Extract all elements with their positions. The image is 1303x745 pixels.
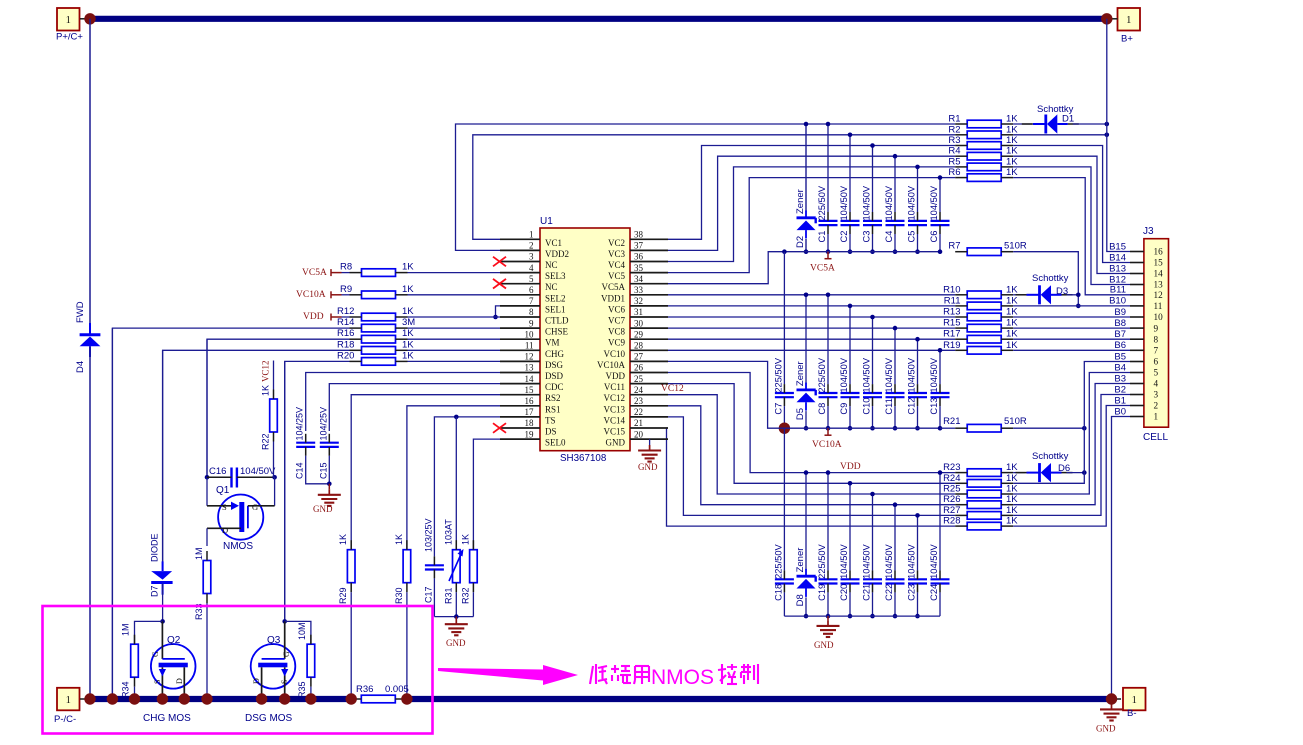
resistor R24 1K — [943, 473, 1018, 487]
pin 15 U1 RS2 — [500, 385, 561, 403]
zener D2 — [795, 189, 816, 248]
net label VC5A pin4 — [302, 268, 342, 278]
capacitor C16 104/50V — [207, 466, 276, 488]
wire CHG down to D7 — [162, 350, 164, 562]
svg-text:B15: B15 — [1109, 241, 1126, 252]
svg-text:DIODE: DIODE — [150, 533, 160, 562]
pin 5 J3 B4 — [1114, 362, 1158, 377]
wire C1 bottom — [827, 234, 829, 252]
junction R34 bus — [129, 693, 140, 704]
wire B0 B- rail — [1112, 417, 1131, 700]
svg-text:R26: R26 — [943, 494, 960, 505]
wire pin35 to R6 row — [668, 178, 940, 273]
svg-text:1K: 1K — [1006, 135, 1018, 146]
svg-text:1K: 1K — [1006, 329, 1018, 340]
svg-text:1K: 1K — [1006, 494, 1018, 505]
capacitor C18 225/50V — [773, 543, 794, 600]
resistor R25 1K — [943, 484, 1018, 498]
resistor R7 510R — [948, 241, 1027, 256]
connector J3 CELL — [1143, 226, 1169, 443]
wire C20 top — [849, 483, 851, 570]
wire D1 to B+ rail — [1073, 123, 1107, 125]
svg-text:R8: R8 — [340, 262, 352, 273]
wire R6 row to resistor — [940, 177, 955, 179]
junction D8 GND bus — [804, 614, 809, 619]
svg-text:VC7: VC7 — [608, 316, 626, 326]
wire pin23 to R26 row — [668, 406, 895, 505]
svg-text:C21: C21 — [862, 584, 872, 601]
wire pin16 to R30 — [407, 406, 500, 550]
svg-text:10: 10 — [525, 329, 535, 339]
pin 9 J3 B8 — [1114, 318, 1158, 333]
svg-text:NMOS: NMOS — [651, 666, 714, 689]
svg-text:20: 20 — [634, 429, 644, 439]
wire R8 to pin4 — [408, 272, 501, 274]
pin 12 J3 B11 — [1110, 285, 1163, 300]
svg-text:VC10A: VC10A — [812, 440, 842, 450]
svg-text:1K: 1K — [1006, 167, 1018, 178]
junction C3 top row — [870, 143, 875, 148]
wire pin31 row R13 — [668, 316, 955, 318]
svg-text:4: 4 — [1154, 379, 1159, 389]
wire C19 top — [827, 473, 829, 571]
wire VDD row — [806, 472, 955, 474]
svg-text:1: 1 — [66, 15, 71, 26]
svg-text:NC: NC — [545, 260, 558, 270]
wire R34 top link — [135, 621, 163, 643]
wire C2 top — [849, 135, 851, 212]
resistor R27 1K — [943, 505, 1018, 519]
wire VC5A to R8 — [342, 272, 350, 274]
junction R30 bus — [401, 693, 412, 704]
svg-text:VDD: VDD — [303, 312, 324, 322]
svg-text:S: S — [153, 680, 162, 684]
svg-text:1K: 1K — [1006, 156, 1018, 167]
wire C12 top — [917, 339, 919, 384]
wire R6 out to B11 — [1013, 178, 1130, 295]
wire R1 out to D1 — [1013, 123, 1032, 125]
svg-text:1K: 1K — [402, 328, 414, 339]
svg-text:R23: R23 — [943, 462, 960, 473]
pin 15 J3 B14 — [1109, 252, 1163, 267]
junction C19 GND bus — [826, 614, 831, 619]
junction C22 top row — [893, 502, 898, 507]
pin 10 U1 VM — [500, 329, 560, 347]
wire C16 left to S — [206, 477, 208, 506]
junction C1 VC5A bus — [826, 249, 831, 254]
wire R13 out to B9 — [1013, 316, 1130, 318]
svg-text:1K: 1K — [402, 284, 414, 295]
wire pin37 to R4 row — [668, 156, 895, 250]
ground C14 C15 — [313, 484, 341, 514]
svg-text:C5: C5 — [907, 231, 917, 243]
wire R22 top — [273, 361, 275, 390]
ground pin 20 — [638, 439, 661, 472]
wire C13 bottom — [939, 406, 941, 428]
svg-text:DSG MOS: DSG MOS — [245, 713, 293, 724]
no-connect X pin 5 — [493, 279, 506, 289]
svg-text:14: 14 — [525, 374, 535, 384]
svg-text:38: 38 — [634, 230, 644, 240]
capacitor C2 104/50V — [839, 185, 860, 242]
wire C5 bottom — [917, 234, 919, 252]
svg-text:104/50V: 104/50V — [240, 466, 276, 477]
wire C3 top — [872, 146, 874, 213]
capacitor C14 104/25V — [295, 407, 316, 479]
wire bottom bus right — [407, 696, 1112, 702]
svg-text:R29: R29 — [338, 587, 348, 604]
svg-text:1K: 1K — [338, 534, 348, 545]
svg-text:S: S — [280, 680, 289, 684]
wire D8 top — [805, 473, 807, 570]
junction C21 top row — [870, 492, 875, 497]
svg-text:15: 15 — [1154, 258, 1164, 268]
capacitor C9 104/50V — [839, 357, 860, 414]
svg-text:R4: R4 — [948, 146, 960, 157]
svg-text:25: 25 — [634, 374, 644, 384]
junction C1 top row — [826, 122, 831, 127]
svg-text:SEL1: SEL1 — [545, 304, 566, 314]
svg-text:Q3: Q3 — [267, 635, 281, 646]
wire C22 top — [894, 505, 896, 571]
capacitor C22 104/50V — [884, 543, 905, 600]
capacitor C17 103/25V — [423, 518, 444, 603]
svg-text:VC6: VC6 — [608, 304, 626, 314]
svg-text:SEL0: SEL0 — [545, 438, 566, 448]
junction B- bus — [1106, 693, 1117, 704]
svg-text:Schottky: Schottky — [1032, 451, 1069, 462]
svg-text:GND: GND — [313, 504, 333, 514]
svg-text:1: 1 — [1154, 412, 1159, 422]
svg-text:R34: R34 — [121, 681, 131, 698]
wire R4 out to B13 — [1013, 156, 1130, 273]
wire pin17 to C17 — [434, 417, 500, 557]
svg-text:1K: 1K — [1006, 473, 1018, 484]
junction D2 VC5A bus — [804, 249, 809, 254]
wire R20 row left — [285, 361, 350, 621]
pin 14 U1 CDC — [500, 374, 564, 392]
svg-text:104/50V: 104/50V — [929, 357, 939, 392]
wire C18 top to VC10A — [783, 428, 785, 570]
resistor R5 1K — [948, 156, 1018, 170]
svg-text:VC12: VC12 — [661, 384, 684, 394]
svg-text:DSD: DSD — [545, 371, 564, 381]
svg-text:24: 24 — [634, 385, 644, 395]
net label VC10A pin6 — [296, 290, 342, 300]
no-connect X pin 18 — [493, 423, 506, 433]
resistor R20 1K — [337, 350, 414, 365]
svg-text:104/50V: 104/50V — [862, 185, 872, 220]
wire D7 to gate node — [162, 584, 164, 622]
resistor R23 1K — [943, 462, 1018, 476]
svg-text:J3: J3 — [1143, 226, 1154, 237]
wire R14 row left — [112, 328, 349, 699]
svg-text:1K: 1K — [1006, 340, 1018, 351]
wire C6 bottom — [939, 234, 941, 252]
annotation magenta box — [43, 606, 433, 734]
svg-text:1K: 1K — [1006, 284, 1018, 295]
wire C19 bottom — [827, 592, 829, 616]
junction Q3 D bus — [256, 693, 267, 704]
junction C16 right — [272, 475, 277, 480]
wire C8 bottom — [827, 406, 829, 428]
resistor R12 1K — [337, 306, 414, 321]
junction P+ rail bus — [84, 693, 95, 704]
wire R21 out to B5 rail — [1013, 427, 1084, 429]
svg-text:GND: GND — [606, 438, 626, 448]
svg-text:B10: B10 — [1109, 296, 1126, 307]
resistor R30 1K — [394, 534, 411, 604]
svg-text:36: 36 — [634, 252, 644, 262]
junction C8 VC10A bus — [826, 426, 831, 431]
svg-text:GND: GND — [446, 638, 466, 648]
pin 2 J3 B1 — [1114, 395, 1158, 410]
svg-text:R21: R21 — [943, 416, 960, 427]
wire pin15 to R29 — [351, 395, 500, 551]
svg-text:1: 1 — [1132, 695, 1137, 706]
wire C11 top — [894, 328, 896, 384]
svg-text:VM: VM — [545, 338, 560, 348]
svg-text:P-/C-: P-/C- — [54, 714, 76, 725]
svg-text:1K: 1K — [1006, 124, 1018, 135]
pin 37 U1 VC3 — [608, 241, 668, 259]
svg-text:C15: C15 — [318, 462, 328, 479]
pin 13 J3 B12 — [1109, 274, 1163, 289]
capacitor C11 104/50V — [884, 357, 905, 414]
wire C23 bottom — [917, 592, 919, 616]
wire C9 top — [849, 306, 851, 384]
pin 24 U1 VC12 — [603, 385, 668, 403]
pin 35 U1 VC5 — [608, 263, 668, 281]
junction C24 top row — [938, 470, 943, 475]
wire C18 bottom — [783, 592, 785, 616]
wire C4 bottom — [894, 234, 896, 252]
capacitor C15 104/25V — [318, 407, 339, 479]
svg-text:D4: D4 — [75, 361, 86, 373]
resistor R10 1K — [943, 284, 1018, 298]
pin 18 U1 DS — [500, 418, 557, 436]
pin 32 U1 VC6 — [608, 296, 668, 314]
wire R22 bottom to C16 — [274, 442, 275, 478]
svg-text:1K: 1K — [402, 339, 414, 350]
svg-text:C9: C9 — [839, 403, 849, 415]
junction R33 bus — [201, 693, 212, 704]
svg-text:DSG: DSG — [545, 360, 564, 370]
svg-text:B2: B2 — [1114, 384, 1126, 395]
svg-text:103AT: 103AT — [443, 519, 453, 545]
wire R31 branch — [455, 417, 457, 550]
wire R4 row to resistor — [895, 155, 955, 157]
svg-text:104/50V: 104/50V — [839, 357, 849, 392]
svg-text:B5: B5 — [1114, 351, 1126, 362]
svg-text:CHG: CHG — [545, 349, 565, 359]
wire pin19 to R32 — [473, 439, 500, 550]
pin 3 J3 B2 — [1114, 384, 1158, 399]
svg-text:1K: 1K — [1006, 484, 1018, 495]
svg-text:GND: GND — [814, 640, 834, 650]
svg-text:DS: DS — [545, 427, 557, 437]
junction D5 VC10A bus — [804, 426, 809, 431]
junction C13 R21 tap — [938, 426, 943, 431]
svg-text:1K: 1K — [1006, 295, 1018, 306]
annotation text low-side NMOS control — [590, 664, 758, 689]
svg-text:510R: 510R — [1004, 416, 1027, 427]
svg-text:C16: C16 — [209, 466, 226, 477]
resistor R21 510R — [943, 416, 1027, 432]
wire R5 row to resistor — [918, 166, 956, 168]
wire D8 bottom — [805, 597, 807, 616]
svg-text:VC5A: VC5A — [302, 268, 327, 278]
wire C10 top — [872, 317, 874, 384]
junction C5 top row — [915, 165, 920, 170]
junction Q2 D bus — [179, 693, 190, 704]
resistor R13 1K — [943, 307, 1018, 321]
wire C6 top — [939, 178, 941, 212]
svg-text:26: 26 — [634, 363, 644, 373]
svg-text:B4: B4 — [1114, 362, 1126, 373]
svg-text:2: 2 — [1154, 401, 1159, 411]
wire C1 top — [827, 124, 829, 212]
resistor R11 1K — [944, 295, 1019, 309]
svg-text:103/25V: 103/25V — [423, 518, 433, 552]
svg-text:B7: B7 — [1114, 329, 1126, 340]
ground C17 R31 R32 — [445, 617, 468, 648]
resistor R33 1M — [194, 547, 211, 620]
pin 30 U1 VC8 — [608, 318, 668, 336]
capacitor C21 104/50V — [862, 543, 883, 600]
pin 29 U1 VC9 — [608, 329, 668, 347]
capacitor C19 225/50V — [817, 543, 838, 600]
svg-text:21: 21 — [634, 418, 643, 428]
svg-text:R25: R25 — [943, 484, 960, 495]
junction D5 R10 row — [804, 293, 809, 298]
wire R11 out to B10 — [1013, 305, 1130, 307]
resistor R17 1K — [943, 329, 1018, 343]
svg-text:VC5A: VC5A — [810, 264, 835, 274]
svg-text:C18: C18 — [773, 584, 783, 601]
svg-text:6: 6 — [1154, 357, 1159, 367]
svg-text:8: 8 — [529, 307, 534, 317]
no-connect X pin 3 — [493, 257, 506, 267]
svg-text:RS1: RS1 — [545, 404, 561, 414]
svg-text:D: D — [222, 525, 228, 535]
wire D6 to B5 rail — [1067, 472, 1085, 474]
svg-text:VC14: VC14 — [603, 415, 625, 425]
pin 1 J3 B0 — [1114, 406, 1158, 421]
pin 1 U1 VC1 — [500, 230, 562, 248]
wire pin30 row R15 — [668, 327, 955, 329]
svg-text:R5: R5 — [948, 156, 960, 167]
wire pin22 to R27 row — [668, 417, 918, 516]
wire pin25 to R24 row — [668, 384, 850, 484]
wire D2 bottom — [805, 239, 807, 252]
capacitor C6 104/50V — [929, 185, 950, 242]
wire R14 to pin9 — [408, 327, 501, 329]
svg-text:CHG MOS: CHG MOS — [143, 713, 191, 724]
svg-text:5: 5 — [529, 274, 534, 284]
resistor R1 1K — [948, 114, 1018, 128]
svg-text:1M: 1M — [121, 623, 131, 636]
junction C21 GND bus — [870, 614, 875, 619]
svg-text:B13: B13 — [1109, 263, 1126, 274]
svg-text:CTLD: CTLD — [545, 316, 569, 326]
wire pin26 to VDD row — [668, 373, 806, 473]
svg-text:1K: 1K — [1006, 318, 1018, 329]
svg-text:R6: R6 — [948, 167, 960, 178]
svg-text:225/50V: 225/50V — [817, 543, 827, 578]
svg-text:B+: B+ — [1121, 34, 1133, 45]
pin 8 J3 B7 — [1114, 329, 1158, 344]
wire R25 out to B4 — [1013, 373, 1130, 495]
diode D4 FWD — [75, 301, 100, 373]
svg-text:Q2: Q2 — [167, 635, 181, 646]
svg-text:C14: C14 — [295, 462, 305, 479]
junction D2 R1 row — [804, 122, 809, 127]
wire R17 out to B7 — [1013, 338, 1130, 340]
wire R5 out to B12 — [1013, 167, 1130, 285]
svg-text:VC10A: VC10A — [597, 360, 626, 370]
junction C23 top row — [915, 513, 920, 518]
wire C10 bottom — [872, 406, 874, 428]
svg-text:104/50V: 104/50V — [884, 185, 894, 220]
wire R27 out to B2 — [1013, 395, 1130, 516]
capacitor C24 104/50V — [929, 543, 950, 600]
svg-text:104/50V: 104/50V — [839, 543, 849, 578]
junction Q3 gate node — [282, 619, 287, 624]
svg-text:R32: R32 — [460, 587, 470, 604]
svg-text:1K: 1K — [1006, 146, 1018, 157]
svg-text:C24: C24 — [929, 584, 939, 601]
wire B5 rail — [1084, 362, 1130, 473]
svg-text:B9: B9 — [1114, 307, 1126, 318]
svg-text:225/50V: 225/50V — [773, 357, 783, 392]
wire C17 bottom — [433, 578, 435, 616]
wire bottom bus left — [87, 696, 351, 702]
wire R1 row to resistor — [806, 123, 955, 125]
junction C22 GND bus — [893, 614, 898, 619]
pin 9 U1 CHSE — [500, 318, 569, 336]
svg-text:3: 3 — [1154, 390, 1159, 400]
svg-text:3M: 3M — [402, 317, 415, 328]
svg-text:TS: TS — [545, 415, 556, 425]
pin 6 J3 B5 — [1114, 351, 1158, 366]
svg-text:VC2: VC2 — [608, 238, 625, 248]
resistor R16 1K — [337, 328, 414, 343]
svg-text:104/50V: 104/50V — [884, 357, 894, 392]
svg-text:VC10A: VC10A — [296, 290, 326, 300]
junction C6 top row — [938, 175, 943, 180]
svg-text:34: 34 — [634, 274, 644, 284]
svg-text:R7: R7 — [948, 241, 960, 252]
svg-text:SEL2: SEL2 — [545, 293, 566, 303]
wire C24 top — [939, 473, 941, 571]
svg-text:GND: GND — [638, 462, 658, 472]
svg-text:31: 31 — [634, 307, 643, 317]
wire pin28 row R19 — [668, 349, 955, 351]
label DSG MOS — [245, 713, 293, 724]
junction C19 top row — [826, 470, 831, 475]
wire D3 to jog — [1067, 294, 1079, 296]
pin 16 J3 B15 — [1109, 241, 1163, 256]
svg-text:1M: 1M — [194, 547, 204, 560]
wire C13 top — [939, 350, 941, 384]
wire R2 row to resistor — [850, 134, 955, 136]
junction C11 top row — [893, 326, 898, 331]
junction Q2 gate node — [160, 619, 165, 624]
zener D8 — [795, 548, 816, 607]
junction C20 top row — [848, 481, 853, 486]
svg-text:C4: C4 — [884, 231, 894, 243]
